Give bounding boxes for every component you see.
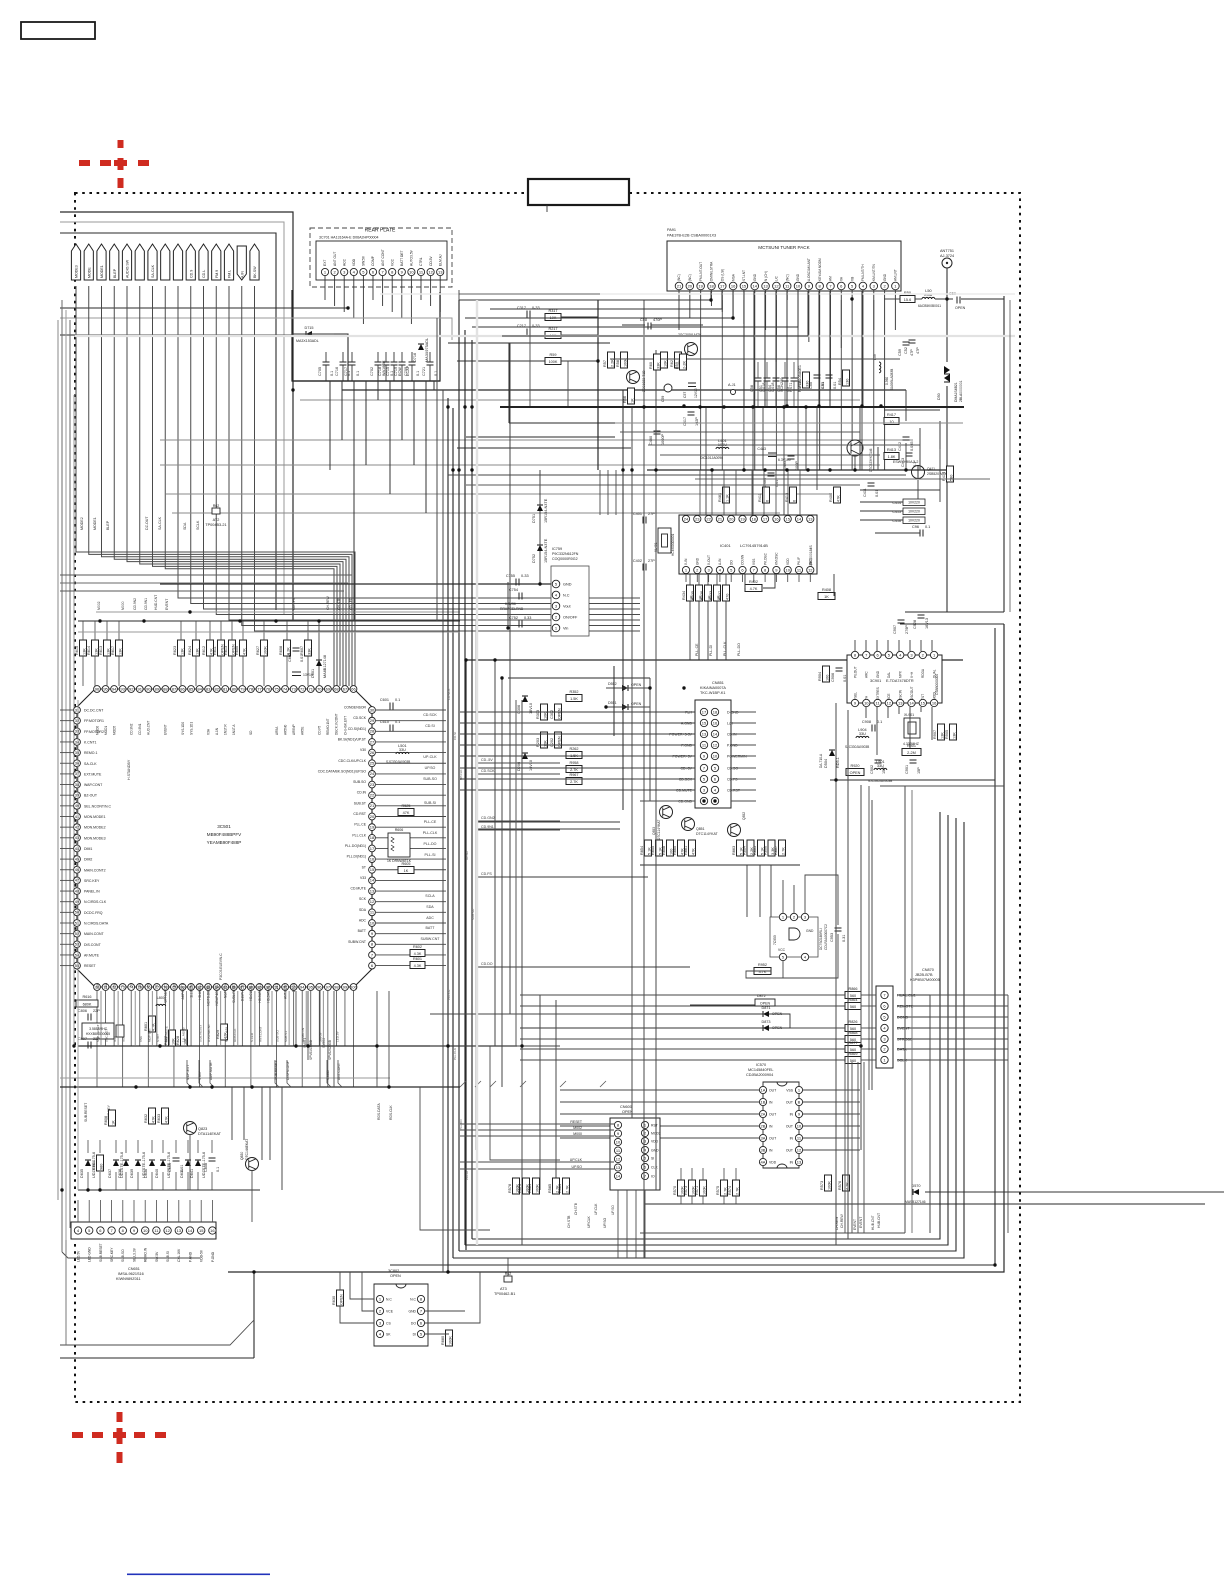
svg-text:RDS.DATA: RDS.DATA <box>224 1026 228 1042</box>
wire R600 bottom lead <box>242 656 244 686</box>
IC501 top pin 30 <box>350 686 357 693</box>
wire 3C701 pin drop <box>372 276 374 300</box>
resistor R576 <box>838 1175 850 1191</box>
svg-text:0.31: 0.31 <box>842 935 846 942</box>
junction <box>834 778 837 781</box>
wire x905 feeder <box>904 786 906 1233</box>
wire CN870 drop x858 <box>857 1062 859 1233</box>
svg-text:OPEN: OPEN <box>760 1002 771 1006</box>
resistor R411 <box>758 487 770 503</box>
svg-text:R832: R832 <box>144 1114 148 1123</box>
svg-text:EXTRES: EXTRES <box>876 687 880 700</box>
wire IC501 right pin to bus <box>376 784 446 786</box>
svg-text:PANEL.IN: PANEL.IN <box>84 890 100 894</box>
wire IC501 bottom pin drop <box>301 991 303 1087</box>
capacitor C302 <box>550 704 562 720</box>
junction <box>731 316 734 319</box>
svg-text:CD.-5V: CD.-5V <box>481 758 493 762</box>
junction <box>98 1188 101 1191</box>
wire tuner pin 16 drop <box>732 290 734 318</box>
connector pin CD.L (plug) <box>199 244 208 280</box>
wire IC401 top feed x724 <box>723 470 725 515</box>
resistor R602 <box>410 945 425 957</box>
svg-text:REMO.IN: REMO.IN <box>144 1247 148 1262</box>
svg-text:L59: L59 <box>873 354 877 360</box>
wire tuner pin drop x744 <box>743 291 745 406</box>
svg-text:AMP.MUTE: AMP.MUTE <box>164 1026 168 1042</box>
svg-text:15: 15 <box>702 720 707 725</box>
tuner pin 9 <box>805 282 813 290</box>
svg-text:SW-5V: SW-5V <box>318 1031 322 1042</box>
svg-text:0.1: 0.1 <box>925 525 930 529</box>
wire left edge bus 1 <box>61 300 63 1252</box>
svg-text:0.035: 0.035 <box>910 441 914 451</box>
wire extra drop x254 <box>254 991 256 1046</box>
svg-text:96: 96 <box>317 984 322 989</box>
wire R43x down x690 <box>689 601 691 660</box>
svg-text:13: 13 <box>898 700 903 705</box>
svg-text:CD.SI: CD.SI <box>453 732 457 740</box>
wire CN870 DGND east ext <box>930 1016 1008 1018</box>
capacitor C808 <box>204 1158 220 1172</box>
svg-text:94: 94 <box>300 984 305 989</box>
junction <box>346 306 349 309</box>
svg-text:BK.SW: BK.SW <box>253 266 257 278</box>
svg-text:IC759: IC759 <box>552 547 562 551</box>
svg-text:3A: 3A <box>761 1135 766 1140</box>
IC501 left pin 34 <box>74 739 81 746</box>
svg-text:CSBB0000000: CSBB0000000 <box>935 674 939 695</box>
svg-text:PLL.CE: PLL.CE <box>447 990 451 1000</box>
svg-text:UP.SO: UP.SO <box>425 766 436 770</box>
svg-text:R855: R855 <box>651 846 655 855</box>
resistor R832 <box>144 1108 156 1124</box>
svg-text:R413: R413 <box>887 448 896 452</box>
resistor R827 <box>164 1030 176 1046</box>
wire IC401 top feed x712 <box>711 470 713 515</box>
junction <box>463 405 466 408</box>
wire IC7D50 pin1 up <box>782 880 784 913</box>
svg-text:Q830: Q830 <box>240 1152 244 1160</box>
svg-text:27: 27 <box>370 739 375 744</box>
wire net CD.FS <box>476 876 648 878</box>
wire L50-C50 <box>935 298 953 300</box>
wire CN870 DATA east ext <box>930 1048 1008 1050</box>
svg-text:47K: 47K <box>243 648 247 655</box>
wire Q823 down <box>189 1134 191 1190</box>
svg-text:R417: R417 <box>887 413 896 417</box>
resistor R57 <box>603 352 615 368</box>
IC501 right pin 26 <box>369 749 376 756</box>
wire IC501 left pin stub <box>60 784 73 786</box>
junction <box>446 405 449 408</box>
wire IC901 pin stub x877 <box>876 707 878 755</box>
capacitor C59 electrolytic <box>661 384 672 402</box>
svg-text:CH.REW: CH.REW <box>835 1216 839 1230</box>
svg-text:470: 470 <box>726 594 730 600</box>
svg-text:52: 52 <box>75 931 80 936</box>
wire IC501 left pin stub <box>60 794 73 796</box>
svg-text:DC.DC.CNT: DC.DC.CNT <box>84 709 104 713</box>
IC501 right pin 16 <box>369 856 376 863</box>
wire IC501 right pin to bus <box>376 965 446 967</box>
wire D873 run <box>520 1027 763 1029</box>
svg-text:FP.MOTOR2: FP.MOTOR2 <box>84 730 104 734</box>
svg-text:PLL-CLK: PLL-CLK <box>423 831 438 835</box>
svg-text:SUB.S1: SUB.S1 <box>284 1031 288 1042</box>
svg-text:DC7SG1B9RLI: DC7SG1B9RLI <box>819 928 823 950</box>
svg-text:SUB.SO: SUB.SO <box>353 780 366 784</box>
wire extra drop x101 <box>100 991 102 1046</box>
IC501 top pin 8 <box>162 686 169 693</box>
svg-text:CLK: CLK <box>651 1166 658 1170</box>
svg-text:DCDC.FRQ: DCDC.FRQ <box>84 911 103 915</box>
wire CN851 west <box>640 755 695 757</box>
wire CN600 drop x618 <box>617 1190 619 1258</box>
svg-text:16: 16 <box>713 720 718 725</box>
wire R613 bottom lead <box>106 656 108 686</box>
wire vertical x1004 upper <box>1003 296 1005 612</box>
CN851 pin 7 <box>700 764 707 771</box>
capacitor C755 <box>506 574 529 586</box>
IC401 pin 15 <box>784 515 791 522</box>
svg-text:Q853: Q853 <box>652 827 656 835</box>
connector pin A.IN (plug) <box>237 246 246 280</box>
wire CN851 west <box>640 789 695 791</box>
wire R608 top lead <box>286 621 288 640</box>
wire C51 bottom <box>766 381 768 406</box>
svg-text:R584: R584 <box>558 1184 562 1193</box>
IC759 pin N.C <box>552 591 560 599</box>
svg-text:COQ0000R0G2: COQ0000R0G2 <box>552 557 578 561</box>
wire CN851 west <box>640 778 695 780</box>
IC570 right pin 1 <box>795 1086 802 1093</box>
svg-text:72: 72 <box>300 686 305 691</box>
transistor Q823 <box>184 1122 197 1135</box>
wire extra drop x152 <box>151 991 153 1046</box>
IC401 pin 8 <box>762 566 769 573</box>
junction <box>493 658 496 661</box>
wire R627 bottom lead <box>263 656 265 686</box>
svg-text:V+H: V+H <box>910 671 914 678</box>
junction <box>596 359 599 362</box>
wire CN600 drop x627 <box>626 1190 628 1258</box>
wire R57x bottom x703 <box>702 1196 704 1204</box>
wire bus y335 <box>60 334 292 336</box>
capacitor C54 <box>768 378 784 392</box>
svg-text:SCLK: SCLK <box>196 520 200 530</box>
resistor R624 <box>188 640 200 656</box>
wire bus y423 right <box>620 422 963 424</box>
CN651 pin 13 <box>175 1227 182 1234</box>
resistor R50 <box>900 291 915 303</box>
svg-text:R854: R854 <box>640 846 644 855</box>
svg-text:SUB.RESET: SUB.RESET <box>99 1243 103 1262</box>
svg-text:C719: C719 <box>394 367 398 376</box>
resistor R437 <box>718 585 730 601</box>
svg-text:10: 10 <box>713 753 718 758</box>
svg-text:1.5K: 1.5K <box>570 697 578 701</box>
wire R43x down x708 <box>707 601 709 660</box>
resistor R58 <box>616 352 628 368</box>
svg-text:4A: 4A <box>761 1159 766 1164</box>
svg-text:100K: 100K <box>828 1181 832 1190</box>
IC501 bottom pin 19 <box>256 984 263 991</box>
svg-text:CD.9N2: CD.9N2 <box>130 723 134 735</box>
svg-text:SCLA: SCLA <box>425 894 435 898</box>
svg-text:16: 16 <box>370 856 375 861</box>
IC570 right pin B <box>795 1098 802 1105</box>
svg-text:94: 94 <box>112 686 117 691</box>
wire bus y660 <box>466 659 963 661</box>
svg-text:C412: C412 <box>898 442 902 451</box>
resistor R868 <box>845 1031 861 1043</box>
svg-text:ST-LNT: ST-LNT <box>742 270 746 281</box>
IC7D50 pin 4 <box>801 953 808 960</box>
svg-text:C96: C96 <box>912 525 919 529</box>
svg-text:C908: C908 <box>862 720 871 724</box>
wire x459 top stub <box>458 290 460 300</box>
svg-text:2-2K: 2-2K <box>683 361 687 369</box>
capacitor C52 <box>904 340 920 354</box>
svg-text:88: 88 <box>163 686 168 691</box>
wire IC501 right pin to bus <box>376 816 446 818</box>
svg-text:ACC: ACC <box>342 258 346 266</box>
IC501 left pin 54 <box>74 952 81 959</box>
capacitor C719 <box>394 362 410 376</box>
wire D871-D873 link <box>769 1014 790 1028</box>
svg-text:BATT: BATT <box>426 926 436 930</box>
tuner pin 13 <box>762 282 770 290</box>
wire IC570 west <box>560 1125 759 1127</box>
svg-text:R627: R627 <box>256 646 260 655</box>
wire R57x top x681 <box>680 1168 682 1180</box>
wire R433 top <box>716 574 718 585</box>
wire D637 bottom lead <box>115 1172 117 1190</box>
svg-text:R630: R630 <box>332 1296 336 1305</box>
capacitor C59 <box>898 342 914 356</box>
wire IC901 bottom rail <box>830 779 995 781</box>
CN651 pin 9 <box>130 1227 137 1234</box>
wire x940 drop <box>939 421 941 449</box>
resistor R481 <box>718 487 730 503</box>
wire D641 bottom lead <box>197 1172 199 1190</box>
junction <box>188 610 191 613</box>
IC501 bottom pin 10 <box>179 984 186 991</box>
svg-text:MA8B127148: MA8B127148 <box>323 655 327 678</box>
svg-text:K3P9B07M00005: K3P9B07M00005 <box>910 978 940 982</box>
svg-text:P.GND: P.GND <box>188 1251 192 1262</box>
svg-text:VDD: VDD <box>786 558 790 565</box>
svg-text:DS (LSI): DS (LSI) <box>720 269 724 281</box>
wire x930 feeder <box>929 995 931 1233</box>
junction <box>274 619 277 622</box>
IC501 right pin 9 <box>369 930 376 937</box>
wire tuner pin 2 drop <box>884 290 886 470</box>
wire R624 top lead <box>195 621 197 640</box>
wire extra drop x323 <box>322 991 324 1046</box>
wire D601 top lead <box>318 621 320 660</box>
svg-text:100K: 100K <box>264 646 268 655</box>
svg-text:28: 28 <box>370 729 375 734</box>
tuner pin 4 <box>859 282 867 290</box>
wire IC901 pin stub x932 <box>931 707 933 740</box>
wire R59 east <box>561 360 598 362</box>
wire left edge to bottom <box>65 1240 67 1345</box>
svg-text:77: 77 <box>257 686 262 691</box>
svg-text:17: 17 <box>763 516 768 521</box>
resistor R436 <box>700 585 712 601</box>
wire IC501 bottom pin drop <box>156 991 158 1046</box>
wire antenna feed lower <box>946 386 948 612</box>
svg-text:ADC: ADC <box>359 919 367 923</box>
svg-text:GND: GND <box>408 1310 416 1314</box>
wire column x806 below bus <box>805 407 807 470</box>
wire rear-plate feeder x330 <box>329 381 331 470</box>
wire CN870 east stub <box>897 1005 930 1007</box>
inductor L59 <box>873 354 894 390</box>
resistor R584 <box>558 1178 570 1194</box>
svg-text:19: 19 <box>698 283 703 288</box>
wire tuner pin drop x754 <box>753 291 755 406</box>
3C802 pin 4 <box>376 1330 383 1337</box>
connector pin AUDIO.SW (plug) <box>122 244 131 280</box>
junction <box>98 619 101 622</box>
wire D752 bottom <box>539 551 541 584</box>
wire R826 east <box>861 1027 876 1029</box>
CN851 pin 3 <box>700 786 707 793</box>
wire gate feeder x747 <box>746 865 748 917</box>
wire IC501 left pin stub <box>60 720 73 722</box>
svg-text:SUB-SI: SUB-SI <box>424 801 436 805</box>
terminal AJ1 <box>728 383 736 395</box>
registration mark top (red cross) <box>79 140 149 188</box>
CN870 pin HUAL.CN1 <box>881 991 888 998</box>
svg-text:1K: 1K <box>112 1120 116 1125</box>
svg-text:KEY/AM.NODM: KEY/AM.NODM <box>818 258 822 281</box>
svg-text:DMA1S4B21: DMA1S4B21 <box>954 382 958 402</box>
wire IC501 right pin to bus <box>376 943 446 945</box>
junction <box>642 405 645 408</box>
svg-text:SUB.RESET: SUB.RESET <box>84 1103 88 1122</box>
svg-text:DIC101JA0096: DIC101JA0096 <box>700 456 723 460</box>
crystal XL901 <box>903 713 920 746</box>
svg-text:580: 580 <box>950 475 954 481</box>
IC501 right pin 23 <box>369 781 376 788</box>
IC901 pin 6 <box>874 651 881 658</box>
svg-text:VSS: VSS <box>752 559 756 565</box>
svg-text:PLL-CE: PLL-CE <box>424 820 437 824</box>
wire R864 east <box>861 1005 876 1007</box>
wire label stub <box>210 1060 214 1087</box>
svg-text:19: 19 <box>740 516 745 521</box>
wire bus y308 <box>60 307 348 309</box>
wire mid bus y400 <box>300 399 860 401</box>
IC501 right pin 6 <box>369 962 376 969</box>
wire C416 lead <box>860 519 903 521</box>
wire rear-plate feeder x390 <box>389 381 391 494</box>
svg-text:SUB.RESET: SUB.RESET <box>199 1024 203 1042</box>
IC501 top pin 19 <box>256 686 263 693</box>
svg-text:23: 23 <box>370 782 375 787</box>
capacitor C304 <box>517 753 533 771</box>
svg-text:R829: R829 <box>216 1030 220 1039</box>
wire C721 top lead <box>429 352 431 362</box>
svg-text:SEL.NCONT/N.C: SEL.NCONT/N.C <box>84 804 112 808</box>
wire IC401 bottom stub <box>775 574 777 582</box>
junction <box>785 404 788 407</box>
wire IC501 bottom pin drop <box>250 991 252 1087</box>
svg-text:680K: 680K <box>83 1003 92 1007</box>
junction <box>853 468 856 471</box>
svg-text:RESET: RESET <box>84 964 97 968</box>
capacitor C405 <box>783 456 799 470</box>
wire bus y359 right <box>610 358 900 360</box>
wire tuner pin drop x765 <box>764 291 766 406</box>
wire 3C701 pin drop <box>439 276 441 312</box>
svg-text:R624: R624 <box>188 646 192 655</box>
3C802 pin 8 <box>417 1295 424 1302</box>
wire bottom left x254 <box>253 1272 255 1358</box>
svg-text:OPEN: OPEN <box>850 771 861 775</box>
svg-text:TKC-W1BP-K1: TKC-W1BP-K1 <box>700 691 726 695</box>
IC501 bottom pin 2 <box>111 984 118 991</box>
wire 3C701 pin drop <box>401 276 403 318</box>
svg-text:LC791457914B: LC791457914B <box>740 543 768 548</box>
svg-text:3C701 HA13164A-E D06A2HP0000: 3C701 HA13164A-E D06A2HP00004 <box>319 236 379 240</box>
svg-text:M000: M000 <box>573 1132 582 1136</box>
wire R864 west <box>520 1005 845 1007</box>
wire x540 feeder <box>539 995 541 1190</box>
svg-text:R408: R408 <box>822 588 831 592</box>
wire R434 top <box>689 574 691 585</box>
svg-text:PLL.DO(ND1): PLL.DO(ND1) <box>345 844 366 848</box>
wire IC401 bottom stub <box>730 574 732 582</box>
svg-text:37: 37 <box>75 771 80 776</box>
svg-text:R864: R864 <box>743 846 747 855</box>
svg-text:67: 67 <box>343 686 348 691</box>
wire C96 lead <box>875 532 920 534</box>
svg-text:24: 24 <box>684 516 689 521</box>
wire rear-plate feeder x434 <box>433 381 435 390</box>
capacitor C928 <box>913 615 929 629</box>
junction <box>682 686 685 689</box>
IC501 top pin 15 <box>222 686 229 693</box>
junction <box>86 1188 89 1191</box>
svg-text:IN: IN <box>790 1137 794 1141</box>
resistor R854 <box>640 840 652 856</box>
svg-text:15: 15 <box>921 700 926 705</box>
wire IC501 bottom pin drop <box>96 991 98 1087</box>
svg-text:90: 90 <box>146 686 151 691</box>
wire CN870 east stub <box>897 1038 930 1040</box>
svg-text:POWERMIN: POWERMIN <box>727 755 747 759</box>
wire y432 right <box>620 431 860 433</box>
svg-text:C58: C58 <box>750 385 754 392</box>
IC7D50 pin 5 <box>779 953 786 960</box>
capacitor C716 <box>335 362 351 376</box>
svg-text:TST: TST <box>921 694 925 700</box>
svg-text:D641: D641 <box>190 1169 194 1178</box>
wire hook <box>520 1081 526 1087</box>
wire C58 west lead <box>622 324 645 326</box>
wire R869 east <box>861 1059 876 1061</box>
svg-text:DGND: DGND <box>897 1016 908 1020</box>
resistor R864 <box>845 998 861 1010</box>
resistor R865 <box>753 840 765 856</box>
svg-text:0-33: 0-33 <box>521 574 529 578</box>
svg-text:UP.CLK: UP.CLK <box>587 1215 591 1228</box>
